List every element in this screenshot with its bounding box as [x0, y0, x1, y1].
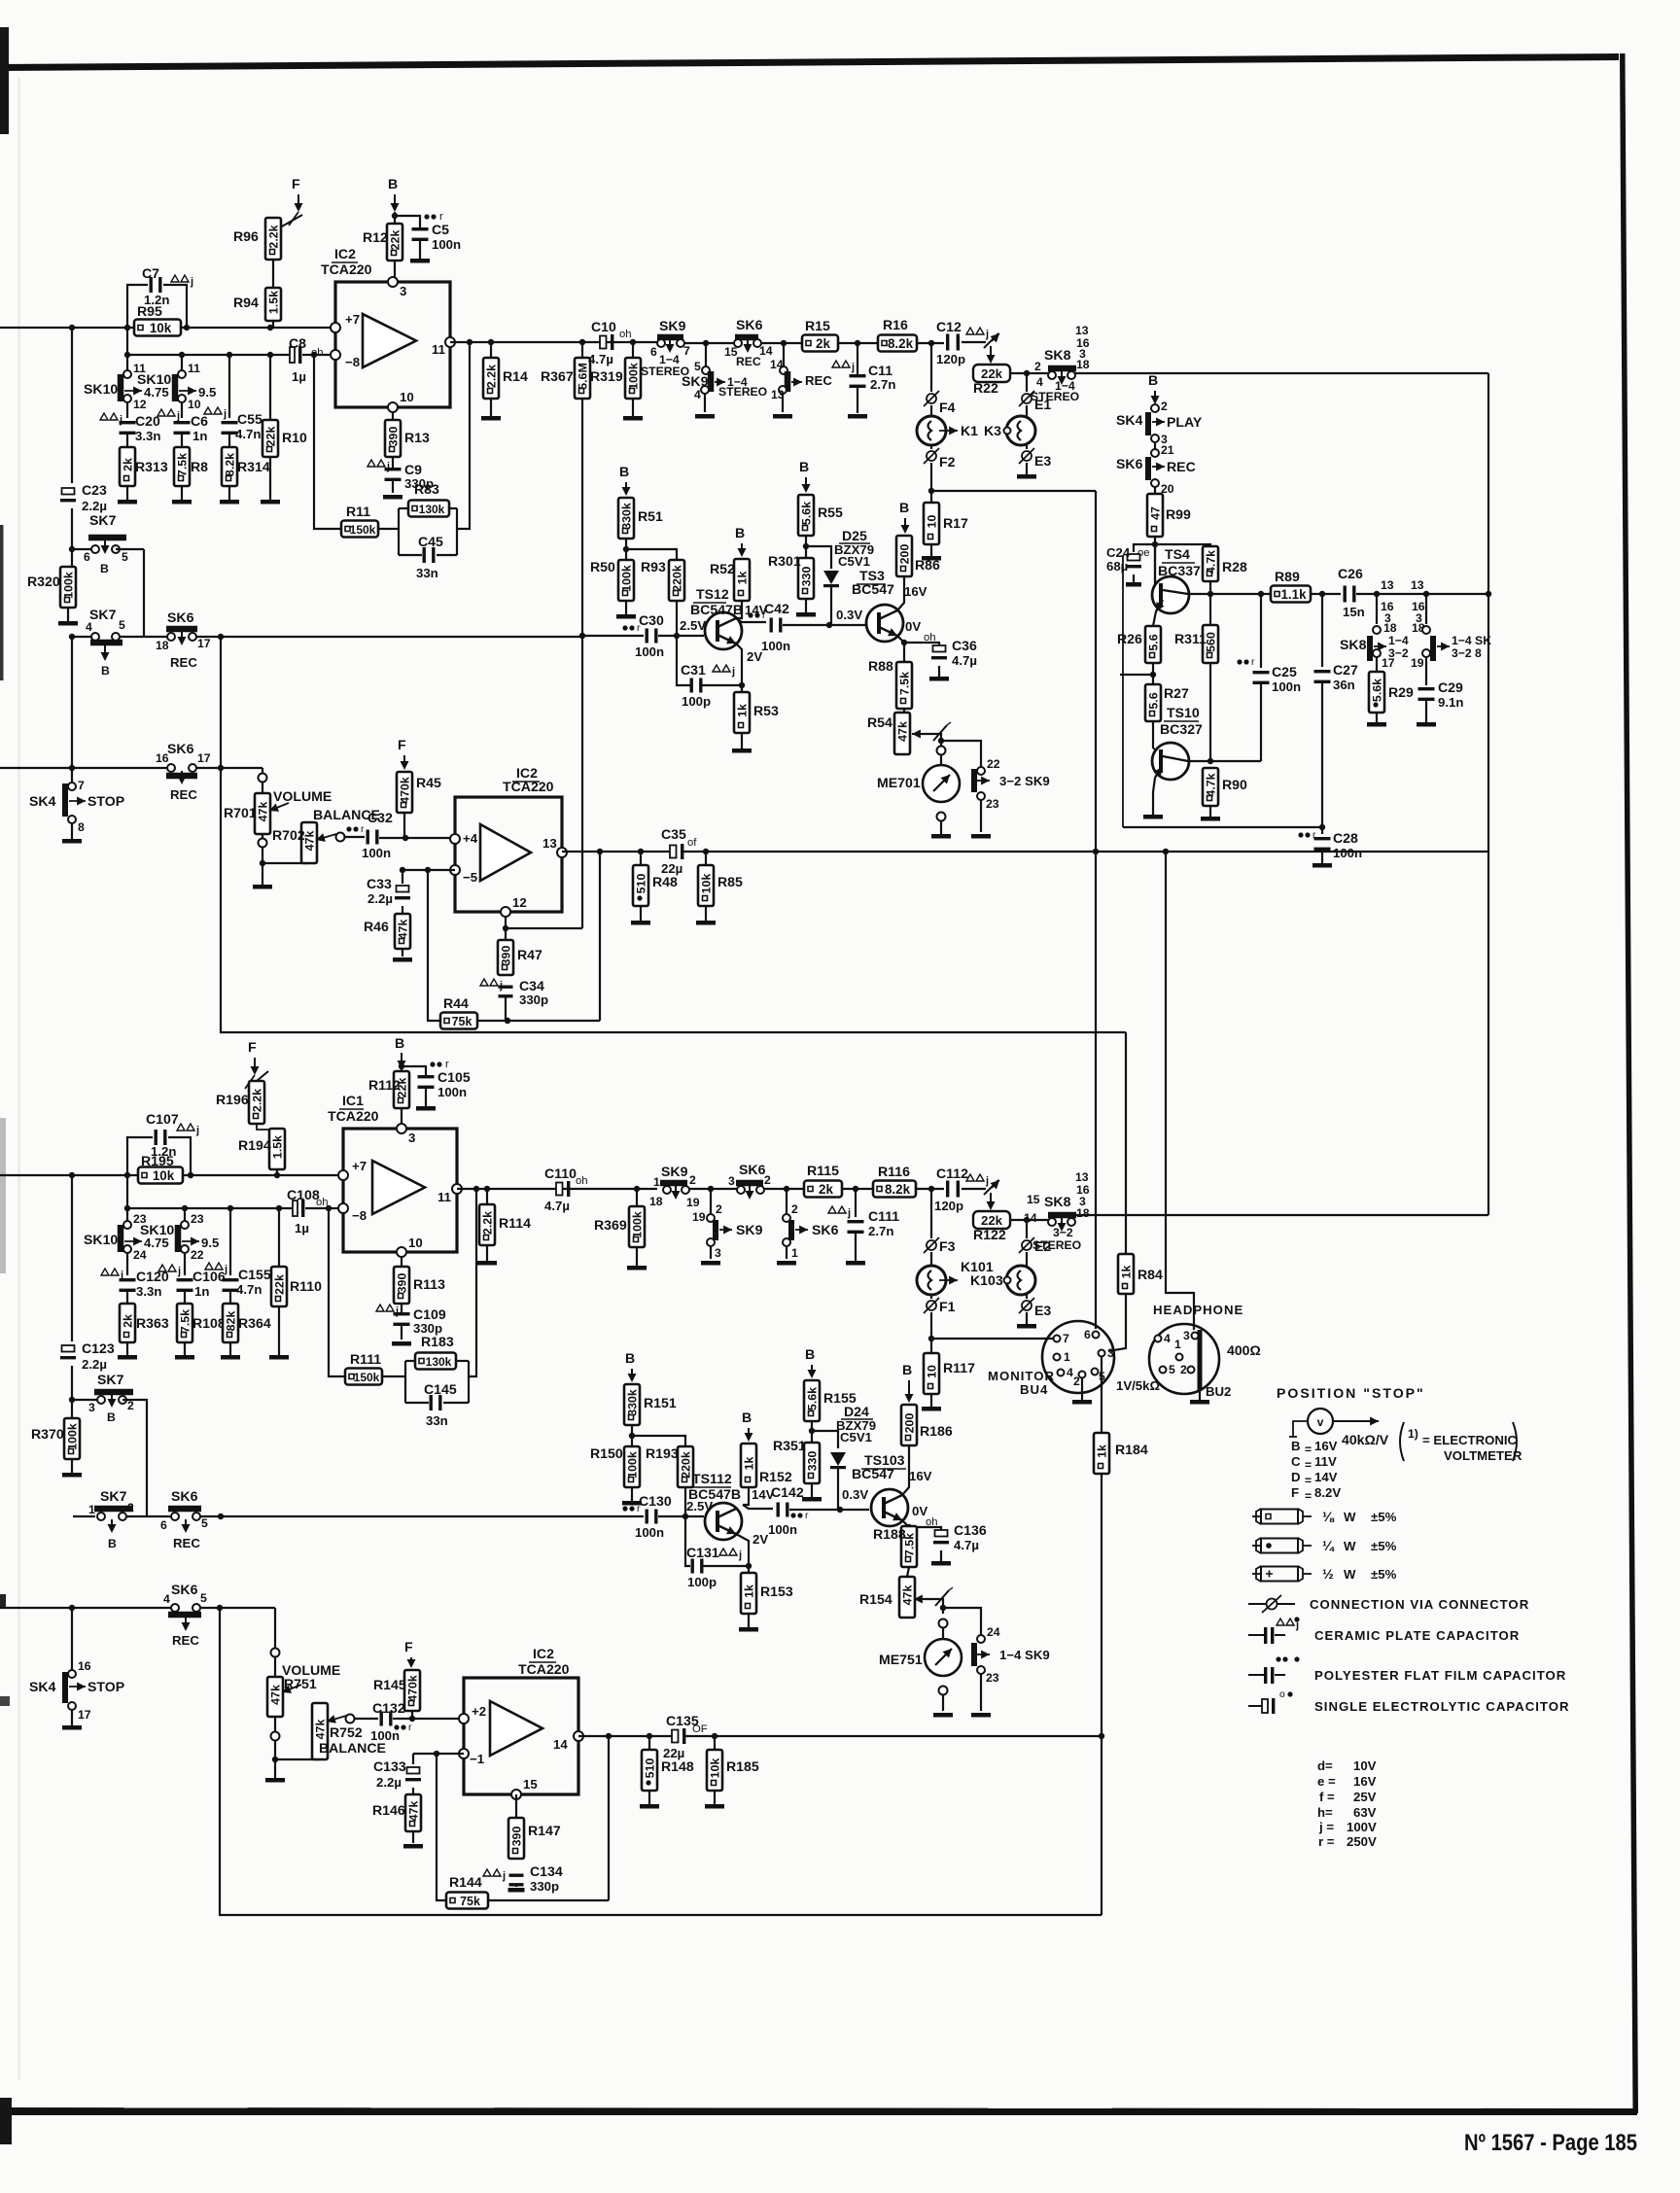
svg-text:2: 2	[127, 1501, 134, 1514]
svg-text:100k: 100k	[66, 1423, 80, 1450]
svg-text:3−2 8: 3−2 8	[1452, 646, 1482, 660]
svg-text:8: 8	[78, 820, 85, 834]
svg-text:1.5k: 1.5k	[267, 291, 281, 314]
svg-text:4: 4	[1164, 1332, 1171, 1345]
svg-text:12: 12	[512, 895, 527, 910]
svg-text:5: 5	[200, 1591, 207, 1605]
svg-text:1V/5kΩ: 1V/5kΩ	[1116, 1378, 1160, 1393]
svg-text:SK9: SK9	[659, 318, 686, 333]
svg-text:10: 10	[926, 1365, 939, 1378]
svg-text:11V: 11V	[1314, 1454, 1337, 1469]
svg-text:5.6M: 5.6M	[577, 363, 590, 390]
svg-text:⅛: ⅛	[1322, 1509, 1335, 1524]
svg-text:100n: 100n	[1333, 846, 1362, 860]
svg-text:6: 6	[650, 345, 657, 359]
svg-text:10: 10	[400, 390, 414, 404]
svg-text:R145: R145	[373, 1677, 406, 1692]
svg-text:SK6: SK6	[739, 1162, 766, 1177]
svg-text:R108: R108	[192, 1315, 226, 1331]
svg-text:200: 200	[898, 544, 912, 565]
svg-text:C123: C123	[82, 1340, 115, 1356]
svg-text:16V: 16V	[909, 1469, 932, 1483]
svg-text:13: 13	[1075, 324, 1089, 337]
svg-text:2: 2	[689, 1173, 696, 1187]
svg-text:22k: 22k	[981, 366, 1003, 381]
svg-text:R369: R369	[594, 1217, 627, 1233]
svg-text:POLYESTER FLAT FILM CAPACITOR: POLYESTER FLAT FILM CAPACITOR	[1314, 1668, 1566, 1683]
svg-text:C105: C105	[437, 1069, 471, 1085]
svg-text:C11: C11	[868, 363, 892, 378]
svg-text:4.7n: 4.7n	[235, 427, 261, 441]
svg-text:SK6: SK6	[1116, 456, 1143, 471]
svg-text:SK9: SK9	[736, 1222, 763, 1237]
svg-text:9.5: 9.5	[198, 385, 216, 400]
svg-text:130k: 130k	[419, 503, 445, 516]
svg-text:10k: 10k	[700, 874, 714, 894]
svg-text:250V: 250V	[1347, 1834, 1377, 1849]
svg-text:R351: R351	[773, 1438, 806, 1453]
svg-text:1k: 1k	[1096, 1445, 1109, 1458]
svg-text:C24: C24	[1106, 545, 1131, 560]
svg-text:j: j	[985, 1175, 989, 1187]
svg-text:j: j	[177, 1266, 181, 1277]
svg-text:C136: C136	[954, 1522, 987, 1538]
svg-text:REC: REC	[172, 1633, 199, 1648]
svg-text:1: 1	[1174, 1338, 1181, 1351]
svg-text:C132: C132	[372, 1700, 405, 1716]
svg-text:16V: 16V	[1314, 1439, 1338, 1453]
svg-text:2: 2	[791, 1202, 798, 1216]
svg-text:−8: −8	[345, 355, 360, 369]
svg-text:4.7n: 4.7n	[236, 1282, 262, 1297]
svg-text:3: 3	[88, 1401, 95, 1414]
svg-text:0.3V: 0.3V	[842, 1487, 868, 1502]
svg-text:R84: R84	[1137, 1267, 1163, 1282]
svg-text:SINGLE ELECTROLYTIC CAPACITOR: SINGLE ELECTROLYTIC CAPACITOR	[1314, 1699, 1569, 1714]
svg-text:REC: REC	[170, 787, 197, 802]
svg-text:j: j	[738, 1549, 742, 1561]
svg-text:5.6k: 5.6k	[800, 502, 814, 525]
svg-text:C130: C130	[639, 1493, 672, 1509]
svg-text:R17: R17	[943, 515, 968, 531]
svg-text:6: 6	[84, 550, 90, 564]
svg-text:3.3n: 3.3n	[135, 429, 160, 443]
svg-text:r: r	[805, 1511, 809, 1521]
svg-text:1n: 1n	[192, 429, 207, 443]
svg-text:=: =	[1305, 1458, 1312, 1472]
svg-text:j: j	[985, 329, 989, 340]
svg-text:16V: 16V	[1353, 1774, 1377, 1789]
svg-text:R95: R95	[137, 303, 162, 319]
svg-text:17: 17	[197, 751, 211, 765]
svg-text:R152: R152	[759, 1469, 792, 1484]
svg-text:R311: R311	[1174, 631, 1207, 646]
svg-text:R116: R116	[878, 1164, 910, 1179]
svg-text:47k: 47k	[901, 1585, 915, 1606]
svg-text:16: 16	[78, 1659, 91, 1673]
svg-text:SK7: SK7	[89, 607, 117, 622]
svg-text:3: 3	[728, 1174, 735, 1188]
svg-text:TS4: TS4	[1165, 546, 1190, 562]
svg-text:47k: 47k	[407, 1801, 421, 1822]
svg-text:1−4 SK9: 1−4 SK9	[999, 1648, 1050, 1662]
svg-text:2V: 2V	[752, 1532, 768, 1547]
svg-text:B: B	[805, 1346, 815, 1362]
svg-text:2.2k: 2.2k	[251, 1089, 264, 1112]
svg-text:23: 23	[986, 1671, 999, 1685]
svg-text:F: F	[398, 737, 406, 752]
svg-text:SK9: SK9	[661, 1164, 688, 1179]
svg-text:10: 10	[188, 398, 201, 411]
svg-text:2.2µ: 2.2µ	[82, 499, 107, 513]
svg-text:HEADPHONE: HEADPHONE	[1153, 1303, 1243, 1317]
svg-text:R188: R188	[873, 1526, 906, 1542]
svg-text:1k: 1k	[736, 572, 750, 585]
svg-text:4: 4	[694, 388, 701, 401]
svg-text:18: 18	[649, 1195, 663, 1208]
svg-text:VOLUME: VOLUME	[282, 1662, 340, 1678]
svg-text:=: =	[1305, 1474, 1312, 1487]
svg-text:R702: R702	[272, 827, 305, 843]
svg-text:100k: 100k	[62, 572, 76, 599]
svg-text:2V: 2V	[747, 649, 762, 664]
svg-text:7: 7	[1063, 1332, 1069, 1345]
svg-text:R370: R370	[31, 1426, 64, 1442]
svg-text:1): 1)	[1408, 1427, 1418, 1441]
svg-text:C28: C28	[1333, 830, 1358, 846]
svg-text:330p: 330p	[530, 1879, 559, 1894]
svg-text:r: r	[361, 824, 365, 835]
svg-text:R363: R363	[136, 1315, 169, 1331]
svg-text:1: 1	[88, 1503, 95, 1516]
svg-text:ME701: ME701	[877, 775, 921, 790]
svg-text:K103: K103	[970, 1272, 1003, 1288]
svg-text:R367: R367	[541, 368, 574, 384]
svg-text:24: 24	[987, 1625, 1000, 1639]
svg-text:17: 17	[78, 1708, 91, 1722]
svg-text:R194: R194	[238, 1137, 271, 1153]
svg-text:TCA220: TCA220	[328, 1108, 379, 1124]
svg-text:11: 11	[437, 1190, 451, 1204]
svg-text:R110: R110	[290, 1278, 322, 1294]
svg-text:1k: 1k	[743, 1457, 756, 1471]
svg-text:17: 17	[197, 637, 211, 650]
svg-text:10V: 10V	[1353, 1758, 1377, 1773]
svg-text:R186: R186	[920, 1423, 953, 1439]
svg-text:C7: C7	[142, 265, 159, 281]
svg-text:C26: C26	[1338, 566, 1363, 581]
svg-text:8.2k: 8.2k	[888, 336, 914, 351]
svg-text:SK10: SK10	[140, 1222, 174, 1237]
svg-text:47k: 47k	[397, 920, 410, 940]
svg-text:STEREO: STEREO	[1032, 1238, 1081, 1252]
svg-text:13: 13	[1411, 578, 1424, 592]
svg-text:C109: C109	[413, 1306, 446, 1322]
svg-text:C112: C112	[936, 1166, 968, 1181]
svg-text:200: 200	[903, 1413, 917, 1434]
svg-text:220k: 220k	[671, 565, 684, 592]
svg-text:330k: 330k	[626, 1389, 640, 1416]
svg-text:19: 19	[1411, 656, 1424, 670]
svg-text:100n: 100n	[635, 644, 664, 659]
svg-text:D25: D25	[842, 528, 867, 543]
svg-text:R99: R99	[1166, 506, 1191, 522]
svg-text:7.5k: 7.5k	[176, 453, 190, 476]
svg-text:3: 3	[1107, 1346, 1114, 1360]
svg-text:SK10: SK10	[137, 371, 171, 387]
svg-text:100p: 100p	[682, 694, 711, 709]
svg-text:10: 10	[926, 515, 939, 529]
svg-text:22k: 22k	[273, 1274, 287, 1295]
svg-text:470k: 470k	[406, 1675, 420, 1702]
svg-text:R46: R46	[364, 919, 389, 934]
svg-text:1µ: 1µ	[295, 1221, 309, 1236]
svg-text:4.7k: 4.7k	[1205, 773, 1218, 796]
svg-text:3.3n: 3.3n	[136, 1284, 161, 1299]
svg-text:18: 18	[156, 639, 169, 652]
svg-text:F: F	[1291, 1485, 1299, 1500]
svg-text:K3: K3	[984, 423, 1001, 438]
svg-text:2.2k: 2.2k	[481, 1211, 495, 1235]
svg-text:100n: 100n	[635, 1525, 664, 1540]
svg-text:f =: f =	[1319, 1790, 1335, 1804]
svg-text:j: j	[847, 1207, 851, 1219]
svg-text:±5%: ±5%	[1371, 1567, 1397, 1582]
svg-text:R14: R14	[503, 368, 528, 384]
svg-text:j: j	[224, 1264, 227, 1275]
svg-text:SK6: SK6	[171, 1488, 198, 1504]
svg-text:R122: R122	[973, 1227, 1006, 1242]
svg-text:B: B	[100, 562, 109, 575]
svg-text:330: 330	[806, 1451, 820, 1472]
svg-text:10: 10	[408, 1236, 423, 1250]
svg-text:B: B	[1148, 372, 1158, 388]
svg-text:19: 19	[686, 1196, 700, 1209]
svg-text:W: W	[1344, 1539, 1356, 1553]
svg-text:4.7µ: 4.7µ	[588, 352, 613, 366]
svg-text:2.2µ: 2.2µ	[82, 1357, 107, 1372]
svg-text:2.5V: 2.5V	[680, 618, 706, 633]
svg-text:5: 5	[122, 550, 128, 564]
svg-text:2.7n: 2.7n	[870, 377, 895, 392]
svg-text:j: j	[223, 408, 227, 420]
svg-text:14: 14	[759, 344, 773, 358]
svg-text:R146: R146	[372, 1802, 405, 1818]
svg-text:+7: +7	[345, 312, 360, 327]
svg-text:15n: 15n	[1343, 605, 1365, 619]
svg-text:100n: 100n	[768, 1522, 797, 1537]
svg-text:C12: C12	[936, 319, 962, 334]
svg-text:C30: C30	[639, 612, 664, 628]
svg-text:510: 510	[635, 874, 648, 894]
svg-text:2.2k: 2.2k	[485, 365, 499, 388]
svg-text:330k: 330k	[620, 503, 634, 530]
svg-text:9.5: 9.5	[201, 1236, 219, 1250]
svg-text:1: 1	[653, 1175, 660, 1189]
svg-text:8.2k: 8.2k	[885, 1182, 911, 1197]
svg-text:100n: 100n	[370, 1728, 400, 1743]
svg-text:C5V1: C5V1	[840, 1430, 872, 1445]
svg-text:Nº 1567 - Page 185: Nº 1567 - Page 185	[1464, 2130, 1637, 2156]
svg-text:j: j	[502, 1870, 506, 1882]
svg-text:j: j	[195, 1125, 199, 1136]
svg-text:4.75: 4.75	[144, 385, 169, 400]
svg-text:SK8: SK8	[1044, 1194, 1071, 1209]
svg-text:17: 17	[1382, 656, 1395, 670]
svg-text:F1: F1	[939, 1299, 956, 1314]
svg-text:470k: 470k	[399, 777, 412, 804]
svg-text:REC: REC	[173, 1536, 200, 1550]
svg-text:100n: 100n	[437, 1085, 467, 1099]
svg-text:½: ½	[1322, 1566, 1334, 1582]
svg-text:R89: R89	[1275, 569, 1300, 584]
svg-text:BC547B: BC547B	[688, 1486, 741, 1502]
svg-text:F: F	[248, 1039, 257, 1055]
svg-text:SK7: SK7	[89, 512, 117, 528]
svg-text:47: 47	[1149, 506, 1163, 520]
svg-text:0V: 0V	[905, 619, 921, 634]
svg-text:REC: REC	[170, 655, 197, 670]
svg-text:390: 390	[500, 946, 513, 966]
svg-text:BC327: BC327	[1160, 721, 1203, 737]
svg-text:22: 22	[191, 1248, 204, 1262]
svg-text:C34: C34	[519, 978, 544, 993]
svg-text:7.5k: 7.5k	[898, 672, 912, 695]
svg-text:100n: 100n	[1272, 679, 1301, 694]
svg-text:3: 3	[400, 284, 406, 298]
svg-text:R150: R150	[590, 1445, 623, 1461]
svg-text:C9: C9	[404, 462, 422, 477]
svg-text:CERAMIC PLATE CAPACITOR: CERAMIC PLATE CAPACITOR	[1314, 1628, 1520, 1643]
svg-text:C: C	[1291, 1454, 1301, 1469]
svg-text:1−4: 1−4	[1388, 634, 1409, 647]
svg-text:R117: R117	[943, 1360, 975, 1375]
svg-text:R115: R115	[807, 1163, 839, 1178]
svg-text:R12: R12	[363, 229, 388, 245]
svg-text:R83: R83	[414, 481, 439, 497]
svg-text:R313: R313	[135, 459, 168, 474]
svg-text:±5%: ±5%	[1371, 1510, 1397, 1524]
svg-text:R26: R26	[1117, 631, 1142, 646]
svg-text:oh: oh	[576, 1175, 588, 1187]
svg-text:47k: 47k	[257, 802, 270, 822]
svg-text:j: j	[190, 276, 193, 288]
svg-text:OF: OF	[692, 1723, 708, 1735]
svg-text:2: 2	[1073, 1375, 1080, 1388]
svg-text:j: j	[731, 666, 735, 678]
svg-text:C31: C31	[681, 662, 706, 678]
svg-text:SK7: SK7	[97, 1372, 124, 1387]
svg-text:2: 2	[716, 1202, 722, 1216]
svg-text:2k: 2k	[122, 458, 135, 471]
svg-text:23: 23	[191, 1212, 204, 1226]
svg-text:SK6: SK6	[167, 741, 194, 756]
svg-text:390: 390	[396, 1273, 409, 1294]
svg-text:R153: R153	[760, 1584, 793, 1599]
svg-text:R55: R55	[818, 505, 843, 520]
svg-text:5: 5	[119, 618, 125, 632]
svg-text:TCA220: TCA220	[503, 779, 554, 794]
svg-text:C32: C32	[367, 810, 393, 825]
svg-text:1k: 1k	[1120, 1266, 1134, 1279]
svg-text:TCA220: TCA220	[321, 261, 372, 277]
svg-text:R86: R86	[915, 557, 940, 573]
svg-text:POSITION "STOP": POSITION "STOP"	[1277, 1385, 1425, 1401]
svg-text:R364: R364	[238, 1315, 271, 1331]
svg-text:+2: +2	[472, 1704, 486, 1719]
svg-text:7: 7	[78, 779, 85, 792]
svg-text:C110: C110	[544, 1166, 577, 1181]
svg-text:390: 390	[387, 427, 401, 447]
svg-text:j =: j =	[1318, 1820, 1334, 1834]
svg-text:1.1k: 1.1k	[1280, 587, 1307, 602]
svg-text:15: 15	[1027, 1193, 1040, 1206]
svg-text:R90: R90	[1222, 777, 1247, 792]
svg-text:B: B	[742, 1410, 752, 1425]
svg-text:j: j	[176, 410, 180, 422]
svg-text:100n: 100n	[761, 639, 790, 653]
svg-text:VOLTMETER: VOLTMETER	[1444, 1448, 1522, 1463]
svg-text:23: 23	[986, 797, 999, 811]
svg-text:2k: 2k	[819, 1182, 833, 1197]
svg-text:PLAY: PLAY	[1167, 414, 1203, 430]
svg-text:18: 18	[1076, 1206, 1090, 1220]
svg-text:400Ω: 400Ω	[1227, 1342, 1261, 1358]
svg-text:19: 19	[692, 1210, 706, 1224]
svg-text:BU4: BU4	[1020, 1382, 1048, 1397]
svg-text:C111: C111	[868, 1208, 899, 1224]
svg-text:C25: C25	[1272, 664, 1297, 679]
svg-text:8.2V: 8.2V	[1314, 1485, 1341, 1500]
svg-text:−5: −5	[463, 870, 477, 885]
svg-text:22k: 22k	[264, 427, 278, 447]
svg-text:v: v	[1317, 1415, 1324, 1429]
svg-text:5: 5	[201, 1516, 208, 1530]
svg-text:4.75: 4.75	[144, 1236, 169, 1250]
svg-text:= ELECTRONIC: = ELECTRONIC	[1422, 1433, 1518, 1447]
svg-text:C27: C27	[1333, 662, 1358, 678]
svg-text:R193: R193	[646, 1445, 679, 1461]
svg-text:C10: C10	[591, 319, 616, 334]
svg-text:B: B	[107, 1410, 116, 1424]
svg-text:22k: 22k	[981, 1213, 1003, 1228]
svg-text:SK4: SK4	[29, 793, 56, 809]
svg-text:36n: 36n	[1333, 678, 1355, 692]
svg-text:2k: 2k	[122, 1314, 135, 1328]
svg-text:5.6: 5.6	[1147, 692, 1161, 709]
svg-text:5.6: 5.6	[1147, 634, 1161, 650]
svg-text:B: B	[619, 464, 629, 479]
svg-text:5.6k: 5.6k	[1371, 679, 1384, 702]
svg-text:C55: C55	[237, 411, 262, 427]
svg-text:R113: R113	[413, 1276, 445, 1292]
svg-text:0.3V: 0.3V	[836, 608, 862, 622]
svg-text:2.2k: 2.2k	[267, 225, 281, 248]
svg-text:4.7µ: 4.7µ	[954, 1538, 979, 1552]
svg-text:11: 11	[188, 362, 200, 375]
svg-text:SK4: SK4	[29, 1679, 56, 1694]
svg-text:SK8: SK8	[1044, 347, 1071, 363]
svg-text:1k: 1k	[736, 704, 750, 717]
svg-text:1.5k: 1.5k	[271, 1135, 285, 1159]
svg-text:+4: +4	[463, 831, 478, 846]
svg-text:C107: C107	[146, 1111, 179, 1127]
svg-text:75k: 75k	[460, 1895, 480, 1908]
svg-text:75k: 75k	[452, 1015, 472, 1028]
svg-text:R148: R148	[661, 1758, 694, 1774]
svg-text:B: B	[735, 525, 745, 540]
svg-text:STEREO: STEREO	[1031, 390, 1079, 403]
